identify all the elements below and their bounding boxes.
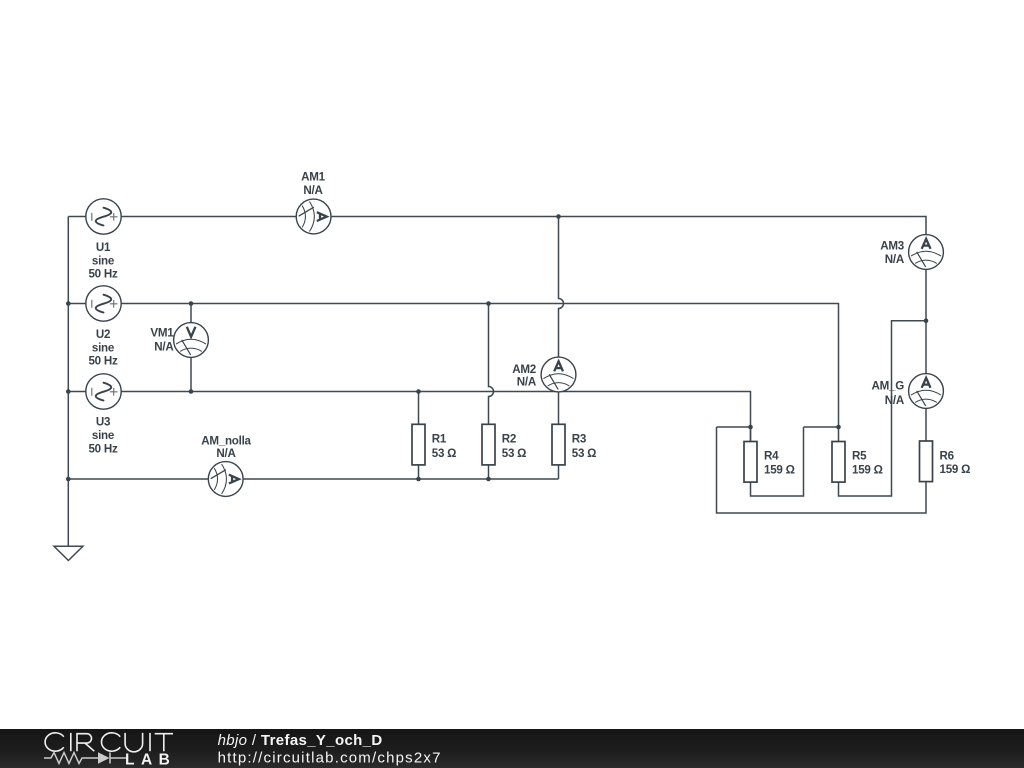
svg-text:50 Hz: 50 Hz	[88, 354, 117, 367]
svg-text:50 Hz: 50 Hz	[88, 442, 117, 455]
svg-text:sine: sine	[92, 429, 115, 442]
svg-text:159 Ω: 159 Ω	[852, 463, 883, 476]
svg-text:R3: R3	[572, 433, 587, 446]
svg-text:R2: R2	[502, 433, 516, 446]
svg-text:http://circuitlab.com/chps2x7: http://circuitlab.com/chps2x7	[218, 750, 442, 767]
svg-text:AM2: AM2	[512, 363, 536, 376]
svg-text:R4: R4	[764, 450, 779, 463]
svg-text:R1: R1	[432, 433, 447, 446]
svg-text:159 Ω: 159 Ω	[940, 463, 971, 476]
svg-text:VM1: VM1	[150, 327, 174, 340]
svg-text:N/A: N/A	[885, 253, 905, 266]
svg-text:53 Ω: 53 Ω	[572, 447, 596, 460]
svg-text:N/A: N/A	[154, 341, 174, 354]
svg-text:53 Ω: 53 Ω	[432, 447, 456, 460]
svg-text:hbjo / Trefas_Y_och_D: hbjo / Trefas_Y_och_D	[218, 732, 383, 749]
svg-text:N/A: N/A	[885, 394, 905, 407]
svg-text:N/A: N/A	[216, 447, 236, 460]
svg-text:sine: sine	[92, 254, 115, 267]
svg-text:U1: U1	[96, 241, 111, 254]
svg-text:50 Hz: 50 Hz	[88, 267, 117, 280]
svg-text:N/A: N/A	[517, 376, 537, 389]
svg-text:U2: U2	[96, 328, 110, 341]
svg-text:AM3: AM3	[880, 239, 905, 252]
svg-text:AM_nolla: AM_nolla	[201, 435, 251, 448]
svg-text:R5: R5	[852, 450, 867, 463]
svg-text:AM1: AM1	[301, 171, 326, 184]
svg-text:AM_G: AM_G	[872, 380, 905, 393]
svg-text:N/A: N/A	[303, 184, 323, 197]
svg-text:53 Ω: 53 Ω	[502, 447, 526, 460]
svg-text:sine: sine	[92, 341, 115, 354]
svg-text:R6: R6	[940, 450, 955, 463]
svg-text:159 Ω: 159 Ω	[764, 463, 795, 476]
svg-text:LAB: LAB	[125, 752, 176, 768]
svg-text:U3: U3	[96, 416, 111, 429]
